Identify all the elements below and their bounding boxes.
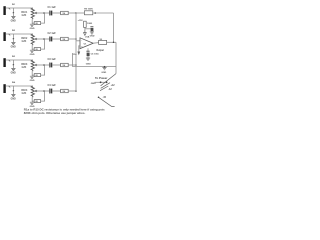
capacitor C5 <box>90 26 93 28</box>
resistor RC2 <box>34 48 40 51</box>
wire resistor R11 to summing bus <box>68 64 76 66</box>
capacitor C6 <box>86 50 89 52</box>
wire pot bottom into RC1 <box>32 22 34 24</box>
svg-text:R3C3: R3C3 <box>21 64 28 66</box>
power arrow bias <box>84 30 87 35</box>
capacitor C6 stub <box>87 48 89 51</box>
svg-text:GND: GND <box>101 72 106 74</box>
resistor RC4 <box>34 100 40 103</box>
wire cap C4 to resistor R12 <box>52 90 60 92</box>
resistor RC3 <box>34 74 40 77</box>
wire power arrow +12 <box>101 83 110 89</box>
wire jack J3 sleeve to ground <box>12 65 14 69</box>
resistor R10 output <box>99 40 107 44</box>
node -15 feed <box>98 97 100 99</box>
svg-text:C3 1uF: C3 1uF <box>48 58 57 61</box>
svg-text:1M: 1M <box>62 65 65 67</box>
node jack J2 sleeve <box>13 38 15 40</box>
node channel 3 wiper junction <box>43 64 45 66</box>
svg-text:100K: 100K <box>87 23 93 25</box>
svg-text:R1C1: R1C1 <box>21 12 28 14</box>
svg-text:GND: GND <box>30 80 35 82</box>
resistor R12 <box>61 89 69 92</box>
pot R1 wiper arrow <box>35 12 38 14</box>
wire output right edge down <box>115 42 117 73</box>
svg-text:R4C4: R4C4 <box>21 89 28 92</box>
power arrow -15V at op-amp <box>77 52 80 56</box>
ground pot R1 <box>30 24 34 26</box>
node jack J1 sleeve <box>13 12 15 14</box>
resistor R9 feedback <box>84 11 92 15</box>
wire jack J3 tip to pot top <box>6 59 33 61</box>
svg-text:C1 1uF: C1 1uF <box>48 6 57 9</box>
pot R2 wiper arrow <box>35 38 38 40</box>
capacitor C1 <box>49 11 51 16</box>
wire op-amp output <box>93 42 98 45</box>
input jack J3 <box>3 58 5 67</box>
potentiometer R2 <box>31 34 34 45</box>
ground jack J2 <box>11 42 15 44</box>
svg-text:4.2K: 4.2K <box>21 14 26 17</box>
resistor R11 <box>61 63 69 66</box>
wire pot R1 bottom to resistor RC1 <box>31 19 33 24</box>
wire pot R4 wiper to cap C4 <box>37 90 49 92</box>
resistor R11 bias <box>84 21 87 27</box>
wire bias node to cap C5 <box>85 28 92 30</box>
jack J3 tip contact tick <box>9 60 11 61</box>
wire jack J4 sleeve to ground <box>12 91 14 95</box>
svg-text:GND: GND <box>11 47 16 49</box>
node jack J4 sleeve <box>13 90 15 92</box>
svg-text:1M: 1M <box>62 91 65 93</box>
wire jack J3 sleeve down <box>12 60 14 65</box>
wire bus to inverting input <box>76 40 80 42</box>
svg-text:-15v: -15v <box>72 54 77 56</box>
wire resistor R10 to summing bus <box>68 38 76 40</box>
ground jack J4 <box>11 94 15 96</box>
node feedback corner <box>94 12 96 14</box>
svg-text:GND: GND <box>11 99 16 101</box>
svg-text:R9 100K: R9 100K <box>84 8 93 10</box>
wire resistor RC1 to wiper node <box>41 13 45 23</box>
node summing bus channel 4 <box>75 90 77 92</box>
svg-text:C4 1uF: C4 1uF <box>48 84 57 87</box>
wire power gnd row <box>95 81 107 83</box>
svg-text:GND: GND <box>11 21 16 23</box>
svg-text:GND: GND <box>30 28 35 30</box>
node jack J3 sleeve <box>13 64 15 66</box>
potentiometer R1 <box>31 8 34 19</box>
ground pot R2 <box>30 50 34 52</box>
wire R10 to output corner <box>107 41 116 43</box>
potentiometer R4 <box>31 86 34 97</box>
wire pot R2 wiper to cap C2 <box>37 38 49 40</box>
svg-text:4.2K: 4.2K <box>21 92 26 95</box>
wire jack J2 sleeve down <box>12 34 14 39</box>
resistor R9 <box>61 11 69 14</box>
node power gnd b <box>106 81 108 83</box>
node channel 1 wiper junction <box>43 12 45 14</box>
wire pot R3 bottom to resistor RC3 <box>31 71 33 76</box>
wire non-inverting input down <box>79 46 80 52</box>
wire -V rail <box>73 66 117 68</box>
svg-text:R2C2: R2C2 <box>21 38 28 40</box>
wire resistor RC3 to wiper node <box>41 65 45 75</box>
wire resistor R9 to summing bus <box>68 12 76 14</box>
svg-text:Output: Output <box>96 49 104 52</box>
svg-text:4.2K: 4.2K <box>21 40 26 43</box>
wire jack J4 tip to pot top <box>6 85 33 87</box>
svg-text:U1A: U1A <box>85 35 90 38</box>
svg-text:820K ohm pots. Otherwise use j: 820K ohm pots. Otherwise use jumper wire… <box>24 111 86 115</box>
wire -V rail left riser <box>72 53 74 67</box>
ground capacitor C5 <box>90 32 94 34</box>
node channel 2 wiper junction <box>43 38 45 40</box>
wire jack J4 sleeve down <box>12 86 14 91</box>
node rail ground tap <box>104 66 106 68</box>
ground jack J1 <box>11 16 15 18</box>
wire resistor RC4 to wiper node <box>41 91 45 101</box>
node summing bus channel 3 <box>75 64 77 66</box>
input jack J1 <box>3 6 5 15</box>
wire jack J1 sleeve down <box>12 8 14 13</box>
wire pot bottom into RC3 <box>32 74 34 76</box>
wire jack J1 tip to pot top <box>6 7 33 9</box>
jack J4 tip contact tick <box>9 86 11 87</box>
svg-text:To Power: To Power <box>95 76 108 80</box>
svg-text:C2 1uF: C2 1uF <box>48 32 57 35</box>
node summing bus channel 2 <box>75 38 77 40</box>
ground rail <box>102 68 106 70</box>
jack J2 tip contact tick <box>9 34 11 35</box>
wire pot R4 bottom to resistor RC4 <box>31 97 33 102</box>
svg-text:4.2K: 4.2K <box>21 66 26 69</box>
wire resistor RC2 to wiper node <box>41 39 45 49</box>
wire jack J2 tip to pot top <box>6 33 33 35</box>
wire pot R2 bottom to resistor RC2 <box>31 45 33 50</box>
node output <box>113 42 115 44</box>
wire bus to feedback resistor R9 <box>76 12 84 14</box>
wire R11 to bias node <box>84 27 86 30</box>
svg-text:GND: GND <box>91 83 96 85</box>
resistor R10 <box>61 37 69 40</box>
jack J1 tip contact tick <box>9 8 11 9</box>
op-amp U1 <box>80 38 93 49</box>
svg-text:1M: 1M <box>62 39 65 41</box>
ground capacitor C6 <box>86 58 90 60</box>
wire -15 diagonal to corner <box>99 97 115 106</box>
input jack J2 <box>3 32 5 41</box>
svg-text:GND: GND <box>86 64 91 66</box>
ground pot R4 <box>30 102 34 104</box>
node summing bus channel 1 <box>75 12 77 14</box>
svg-text:1M: 1M <box>62 13 65 15</box>
ground pot R3 <box>30 76 34 78</box>
wire cap C1 to resistor R9 <box>52 12 60 14</box>
capacitor C3 <box>49 63 51 68</box>
svg-text:GND: GND <box>30 54 35 56</box>
wire jack J1 sleeve to ground <box>12 13 14 17</box>
node channel 4 wiper junction <box>43 90 45 92</box>
capacitor C2 <box>49 37 51 42</box>
pot R3 wiper arrow <box>35 64 38 66</box>
capacitor C4 <box>49 89 51 94</box>
resistor RC1 <box>34 22 40 25</box>
node power gnd a <box>100 81 102 83</box>
svg-text:+15V: +15V <box>78 20 84 22</box>
wire power arrow -12 <box>100 86 108 91</box>
wire pot bottom into RC4 <box>32 100 34 102</box>
potentiometer R3 <box>31 60 34 71</box>
wire pot R3 wiper to cap C3 <box>37 64 49 66</box>
pot R4 wiper arrow <box>35 90 38 92</box>
wire summing bus <box>75 13 77 91</box>
wire power arrow long <box>101 74 116 86</box>
wire resistor R12 to summing bus <box>68 90 76 92</box>
wire pot R1 wiper to cap C1 <box>37 12 49 14</box>
ground jack J3 <box>11 68 15 70</box>
input jack J4 <box>3 84 5 93</box>
wire feedback down right side <box>113 13 115 42</box>
svg-text:GND: GND <box>90 35 95 37</box>
wire R9 to output node <box>93 12 114 14</box>
wire cap C2 to resistor R10 <box>52 38 60 40</box>
wire cap C3 to resistor R11 <box>52 64 60 66</box>
wire pot bottom into RC2 <box>32 48 34 50</box>
svg-text:GND: GND <box>11 73 16 75</box>
svg-text:C6 100n: C6 100n <box>91 54 100 56</box>
wire jack J2 sleeve to ground <box>12 39 14 43</box>
